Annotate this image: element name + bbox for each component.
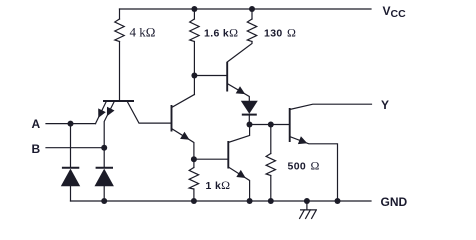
svg-text:500 Ω: 500 Ω [288, 159, 320, 173]
svg-text:GND: GND [381, 195, 408, 209]
svg-text:Y: Y [381, 98, 389, 112]
svg-text:A: A [32, 117, 41, 131]
svg-text:VCC: VCC [383, 4, 407, 20]
svg-text:B: B [32, 142, 41, 156]
svg-text:130 Ω: 130 Ω [264, 26, 296, 40]
svg-text:1.6 kΩ: 1.6 kΩ [204, 26, 238, 40]
svg-text:4 kΩ: 4 kΩ [130, 25, 156, 40]
svg-text:1 kΩ: 1 kΩ [206, 178, 231, 192]
